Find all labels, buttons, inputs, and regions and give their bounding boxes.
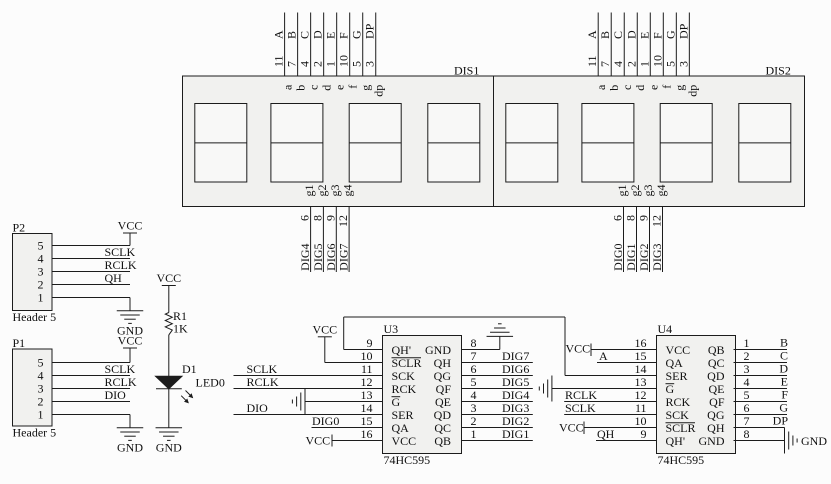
svg-text:DIG0: DIG0: [611, 244, 625, 271]
svg-text:DIG4: DIG4: [502, 388, 529, 402]
svg-text:D: D: [779, 362, 788, 376]
P1 pin 2 number: [38, 395, 44, 409]
net label DIG2: [502, 414, 529, 428]
svg-text:a: a: [281, 84, 295, 90]
U4 pin 6 number: [744, 401, 750, 415]
svg-text:DP: DP: [363, 23, 377, 39]
wire U3 DIG7: [462, 362, 533, 364]
U3 pin 6 name QG: [434, 369, 452, 383]
svg-text:B: B: [285, 31, 299, 39]
display DIS2 pin 11 wire (net A): [597, 13, 599, 77]
display DIS2 pin 9 wire (net DIG2): [649, 207, 651, 273]
U3 pin 1 number: [471, 427, 477, 441]
svg-text:G: G: [350, 30, 364, 39]
svg-text:DIS1: DIS1: [454, 63, 479, 77]
net label DIG1: [624, 244, 638, 271]
display DIS1 pin 1 wire (net E): [336, 13, 338, 77]
U4 pin 9 name QH': [666, 434, 686, 448]
svg-text:QH: QH: [597, 427, 615, 441]
svg-text:4: 4: [744, 375, 750, 389]
ground at D1: [156, 428, 183, 455]
display DIS2 digit 4: [739, 104, 791, 183]
svg-text:QD: QD: [707, 369, 725, 383]
ground at P1 pin 1: [117, 415, 144, 455]
svg-text:QH: QH: [434, 356, 452, 370]
display DIS1 digit 2: [271, 104, 323, 183]
svg-text:DIG3: DIG3: [502, 401, 529, 415]
svg-text:D: D: [624, 30, 638, 39]
display DIS1 digit 3: [349, 104, 401, 183]
svg-text:1: 1: [324, 61, 338, 67]
svg-text:4: 4: [38, 369, 44, 383]
pin number 8: [624, 215, 638, 221]
U4 pin 14 number: [635, 362, 647, 376]
svg-text:3: 3: [38, 382, 44, 396]
U4 pin 15 number: [635, 349, 647, 363]
svg-text:RCLK: RCLK: [247, 375, 279, 389]
wire U3 DIG4: [462, 401, 533, 403]
power VCC at U4 SCLR: [559, 421, 657, 435]
net label B: [598, 31, 612, 39]
net label DP: [773, 414, 789, 428]
display DIS1 pin 2 wire (net D): [323, 13, 325, 77]
net label A: [585, 30, 599, 39]
pin number 7: [285, 61, 299, 67]
net label DIG0: [611, 244, 625, 271]
display DIS2 pin name g: [672, 85, 686, 91]
svg-text:DIO: DIO: [105, 388, 127, 402]
U4 pin 6 name QG: [707, 408, 725, 422]
svg-text:DIG0: DIG0: [312, 414, 339, 428]
display DIS2 pin name g1: [615, 185, 629, 197]
svg-text:VCC: VCC: [118, 334, 143, 348]
net label RCLK: [247, 375, 279, 389]
U4 pin 7 name QH: [707, 421, 725, 435]
svg-text:SCLK: SCLK: [565, 401, 596, 415]
pin number 10: [650, 55, 664, 67]
svg-text:G: G: [392, 395, 401, 409]
svg-text:5: 5: [350, 61, 364, 67]
svg-text:VCC: VCC: [666, 343, 691, 357]
display DIS2 pin 8 wire (net DIG1): [636, 207, 638, 273]
pin number 7: [598, 61, 612, 67]
U3 pin 11 number: [361, 362, 373, 376]
wire RCLK to U3: [234, 388, 383, 390]
U4 pin 8 name GND: [699, 434, 725, 448]
net label QH: [105, 271, 123, 285]
net label A: [599, 349, 608, 363]
ground at U3 G: [292, 389, 305, 415]
svg-text:F: F: [781, 388, 788, 402]
svg-text:8: 8: [744, 427, 750, 441]
U3 pin 5 name QF: [436, 382, 452, 396]
svg-text:11: 11: [585, 55, 599, 67]
wire U3 GND pin: [462, 336, 500, 349]
U4 pin 16 name VCC: [666, 343, 691, 357]
ground at U4 G: [539, 376, 552, 402]
net label D: [779, 362, 788, 376]
wire SCLK to U3: [234, 375, 383, 377]
LED D1 diode: [156, 376, 183, 389]
U3 pin 16 number: [361, 427, 373, 441]
svg-text:GND: GND: [801, 434, 827, 448]
svg-text:B: B: [780, 336, 788, 350]
svg-text:E: E: [637, 32, 651, 39]
net label SCLK: [247, 362, 278, 376]
pin number 9: [637, 215, 651, 221]
svg-text:F: F: [650, 32, 664, 39]
svg-text:1K: 1K: [173, 322, 188, 336]
display DIS1 pin 3 wire (net DP): [375, 13, 377, 77]
svg-text:DP: DP: [676, 23, 690, 39]
svg-text:10: 10: [650, 55, 664, 67]
wire U4 E: [734, 388, 788, 390]
U3 pin 10 name SCLR: [392, 356, 422, 370]
connector P1 body: [13, 349, 53, 426]
svg-text:1: 1: [38, 408, 44, 422]
P1 pin 1 wire: [52, 414, 130, 416]
display DIS2 pin name b: [607, 85, 621, 91]
svg-text:e: e: [646, 85, 660, 90]
wire SCLK to U4: [564, 414, 656, 416]
wire U4 C: [734, 362, 788, 364]
svg-text:Header 5: Header 5: [13, 426, 57, 440]
svg-text:QF: QF: [709, 395, 725, 409]
U4 pin 11 name SCK: [666, 408, 690, 422]
display DIS2 pin 12 wire (net DIG3): [662, 207, 664, 273]
connector P2 body: [13, 234, 53, 311]
net label RCLK: [565, 388, 597, 402]
U3 pin 7 number: [471, 349, 477, 363]
U3 pin 1 name QB: [434, 434, 451, 448]
wire U3 DIG3: [462, 414, 533, 416]
svg-text:9: 9: [367, 336, 373, 350]
svg-text:2: 2: [38, 395, 44, 409]
svg-text:VCC: VCC: [566, 342, 591, 356]
svg-text:10: 10: [361, 349, 373, 363]
net label SCLK: [105, 245, 136, 259]
svg-text:2: 2: [744, 349, 750, 363]
svg-text:7: 7: [744, 414, 750, 428]
P2 pin 5 wire: [52, 245, 130, 247]
display DIS1 pin name g: [359, 85, 373, 91]
U4 pin 11 number: [635, 401, 647, 415]
display DIS1 digit 4: [428, 104, 480, 183]
svg-text:D: D: [311, 30, 325, 39]
svg-text:QC: QC: [708, 356, 725, 370]
svg-text:8: 8: [310, 215, 324, 221]
svg-text:C: C: [780, 349, 788, 363]
svg-text:E: E: [781, 375, 788, 389]
P1 pin 4 wire: [52, 375, 130, 377]
svg-text:3: 3: [744, 362, 750, 376]
svg-text:f: f: [346, 85, 360, 89]
net label DIG0: [312, 414, 339, 428]
svg-text:d: d: [633, 85, 647, 91]
connector P1 refdes: [13, 336, 26, 350]
display DIS1 label: [454, 63, 479, 77]
svg-text:f: f: [659, 85, 673, 89]
U3 pin 5 number: [471, 375, 477, 389]
U4 pin 4 name QE: [709, 382, 725, 396]
svg-text:5: 5: [663, 61, 677, 67]
wire D1 to ground: [168, 389, 170, 428]
svg-text:VCC: VCC: [392, 434, 417, 448]
net label C: [611, 31, 625, 39]
svg-text:g4: g4: [654, 185, 668, 197]
display DIS2 pin 6 wire (net DIG0): [623, 207, 625, 273]
wire U3 G to ground: [305, 401, 383, 403]
svg-text:7: 7: [598, 61, 612, 67]
P2 pin 5 number: [38, 239, 44, 253]
svg-text:3: 3: [471, 401, 477, 415]
net label C: [780, 349, 788, 363]
svg-text:A: A: [585, 30, 599, 39]
U4 pin 3 name QD: [707, 369, 725, 383]
net label DIG3: [650, 244, 664, 271]
svg-text:16: 16: [635, 336, 647, 350]
U4 pin 14 name SER: [666, 369, 688, 383]
svg-text:QE: QE: [709, 382, 725, 396]
svg-text:P1: P1: [13, 336, 26, 350]
svg-text:DIG3: DIG3: [650, 244, 664, 271]
P2 pin 3 number: [38, 265, 44, 279]
IC U3 value 74HC595: [384, 453, 431, 467]
svg-text:SCLR: SCLR: [666, 421, 696, 435]
svg-text:5: 5: [471, 375, 477, 389]
svg-text:GND: GND: [156, 441, 182, 455]
pin number 12: [650, 215, 664, 227]
display DIS1 pin name g3: [328, 185, 342, 197]
label R1: [173, 309, 187, 323]
P1 pin 3 number: [38, 382, 44, 396]
svg-text:B: B: [598, 31, 612, 39]
pin number 1: [637, 61, 651, 67]
wire U4 GND pin: [734, 440, 785, 442]
display DIS1 pin name e: [333, 85, 347, 90]
svg-text:G: G: [663, 30, 677, 39]
display DIS2 pin name c: [620, 85, 634, 90]
wire U4 G to ground: [552, 388, 657, 390]
display DIS1 pin 10 wire (net F): [349, 13, 351, 77]
U3 pin 7 name QH: [434, 356, 452, 370]
IC U4 body: [657, 336, 736, 454]
svg-text:9: 9: [641, 427, 647, 441]
U4 pin 10 name SCLR: [666, 421, 696, 435]
U4 pin 13 name G: [666, 382, 675, 396]
svg-text:4: 4: [471, 388, 477, 402]
U3 pin 9 number: [367, 336, 373, 350]
wire QH to U4: [596, 440, 657, 442]
U3 pin 13 number: [361, 388, 373, 402]
net label DIG1: [502, 427, 529, 441]
svg-text:QA: QA: [666, 356, 684, 370]
power VCC at U3 SCLR: [312, 323, 382, 363]
display DIS1 pin name g1: [302, 185, 316, 197]
P1 pin 1 number: [38, 408, 44, 422]
U3 pin 8 number: [471, 336, 477, 350]
net label E: [324, 32, 338, 39]
svg-text:G: G: [666, 382, 675, 396]
wire U4 QA net A: [597, 362, 657, 364]
U3 pin 14 name SER: [392, 408, 414, 422]
display DIS1 pin name g2: [315, 185, 329, 197]
svg-text:14: 14: [635, 362, 647, 376]
svg-text:SCLK: SCLK: [105, 245, 136, 259]
display DIS1 digit 1: [195, 104, 247, 183]
net label DIG2: [637, 244, 651, 271]
power VCC at P1 pin 5: [118, 334, 143, 363]
svg-text:A: A: [272, 30, 286, 39]
svg-text:E: E: [324, 32, 338, 39]
svg-text:2: 2: [624, 61, 638, 67]
svg-text:g3: g3: [641, 185, 655, 197]
display DIS1 pin 9 wire (net DIG6): [335, 207, 337, 273]
U3 pin 13 name G: [392, 395, 401, 409]
display DIS2 pin name a: [594, 84, 608, 90]
svg-text:11: 11: [635, 401, 647, 415]
display DIS1 body: [183, 76, 494, 207]
svg-text:11: 11: [361, 362, 373, 376]
svg-text:12: 12: [336, 215, 350, 227]
svg-text:QH: QH: [707, 421, 725, 435]
display DIS2 digit 2: [582, 104, 634, 183]
display DIS2 pin name g3: [641, 185, 655, 197]
display DIS1 pin 5 wire (net G): [362, 13, 364, 77]
U4 pin 1 name QB: [708, 343, 725, 357]
U3 pin 12 number: [361, 375, 373, 389]
svg-text:g: g: [359, 85, 373, 91]
U4 pin 2 number: [744, 349, 750, 363]
P2 pin 1 number: [38, 291, 44, 305]
net label B: [780, 336, 788, 350]
svg-text:QH': QH': [666, 434, 686, 448]
svg-text:DIG2: DIG2: [502, 414, 529, 428]
U4 pin 12 name RCK: [666, 395, 691, 409]
net label SCLK: [105, 362, 136, 376]
display DIS2 pin name d: [633, 85, 647, 91]
resistor R1: [165, 313, 172, 335]
svg-text:RCK: RCK: [392, 382, 417, 396]
IC U3 refdes: [384, 322, 399, 336]
pin number 5: [350, 61, 364, 67]
net label DIG5: [311, 244, 325, 271]
net label DIG4: [298, 244, 312, 271]
U3 pin 6 number: [471, 362, 477, 376]
label LED0: [196, 376, 225, 390]
svg-text:VCC: VCC: [312, 323, 337, 337]
display DIS2 pin name dp: [685, 85, 699, 97]
display DIS2 digit 3: [660, 104, 712, 183]
net label DIG7: [502, 349, 529, 363]
display DIS2 body: [494, 76, 805, 207]
svg-text:QF: QF: [436, 382, 452, 396]
svg-text:DIG7: DIG7: [502, 349, 529, 363]
display DIS1 pin name d: [320, 85, 334, 91]
pin number 4: [611, 61, 625, 67]
svg-text:C: C: [611, 31, 625, 39]
net label DIO: [105, 388, 127, 402]
svg-text:U4: U4: [658, 322, 673, 336]
pin number 3: [363, 61, 377, 67]
svg-text:16: 16: [361, 427, 373, 441]
pin number 5: [663, 61, 677, 67]
svg-text:LED0: LED0: [196, 376, 225, 390]
P2 pin 2 wire: [52, 284, 130, 286]
svg-text:dp: dp: [685, 85, 699, 97]
svg-text:Header 5: Header 5: [13, 310, 57, 324]
svg-text:6: 6: [744, 401, 750, 415]
svg-text:5: 5: [38, 356, 44, 370]
wire DIO to U3: [234, 414, 383, 416]
svg-text:SCK: SCK: [666, 408, 690, 422]
U4 pin 8 number: [744, 427, 750, 441]
display DIS2 label: [766, 63, 791, 77]
U3 pin 12 name RCK: [392, 382, 417, 396]
svg-text:D1: D1: [182, 362, 197, 376]
svg-text:4: 4: [298, 61, 312, 67]
net label F: [781, 388, 788, 402]
net label E: [781, 375, 788, 389]
svg-text:10: 10: [337, 55, 351, 67]
IC U4 refdes: [658, 322, 673, 336]
svg-text:SCLR: SCLR: [392, 356, 422, 370]
svg-text:DIG7: DIG7: [337, 244, 351, 271]
svg-text:c: c: [620, 85, 634, 90]
wire R1 to D1: [168, 335, 170, 376]
ground at U3 pin8: [487, 324, 514, 337]
pin number 10: [337, 55, 351, 67]
U3 pin 4 name QE: [435, 395, 451, 409]
svg-text:6: 6: [611, 215, 625, 221]
U4 pin 5 number: [744, 388, 750, 402]
net label D: [624, 30, 638, 39]
svg-text:d: d: [320, 85, 334, 91]
net label A: [272, 30, 286, 39]
U4 pin 16 number: [635, 336, 647, 350]
pin number 11: [272, 55, 286, 67]
display DIS1 pin 8 wire (net DIG5): [322, 207, 324, 273]
svg-text:1: 1: [744, 336, 750, 350]
svg-text:RCLK: RCLK: [105, 258, 137, 272]
U4 pin 10 number: [635, 414, 647, 428]
display DIS2 pin name e: [646, 85, 660, 90]
svg-text:7: 7: [471, 349, 477, 363]
svg-text:g4: g4: [341, 185, 355, 197]
svg-text:13: 13: [635, 375, 647, 389]
U4 pin 4 number: [744, 375, 750, 389]
svg-text:QE: QE: [435, 395, 451, 409]
U4 pin 12 number: [635, 388, 647, 402]
P1 pin 3 wire: [52, 388, 130, 390]
P2 pin 2 number: [38, 278, 44, 292]
svg-text:g2: g2: [628, 185, 642, 197]
svg-text:SCLK: SCLK: [247, 362, 278, 376]
P1 pin 4 number: [38, 369, 44, 383]
svg-text:GND: GND: [425, 343, 451, 357]
U3 pin 14 number: [361, 401, 373, 415]
P1 pin 2 wire: [52, 401, 130, 403]
wire RCLK to U4: [564, 401, 656, 403]
net label DIG6: [502, 362, 529, 376]
svg-text:QH': QH': [392, 343, 412, 357]
svg-text:dp: dp: [372, 85, 386, 97]
wire U4 F: [734, 401, 788, 403]
pin number 12: [336, 215, 350, 227]
display DIS1 pin 6 wire (net DIG4): [310, 207, 312, 273]
P2 pin 4 number: [38, 252, 44, 266]
net label DIO: [247, 401, 269, 415]
